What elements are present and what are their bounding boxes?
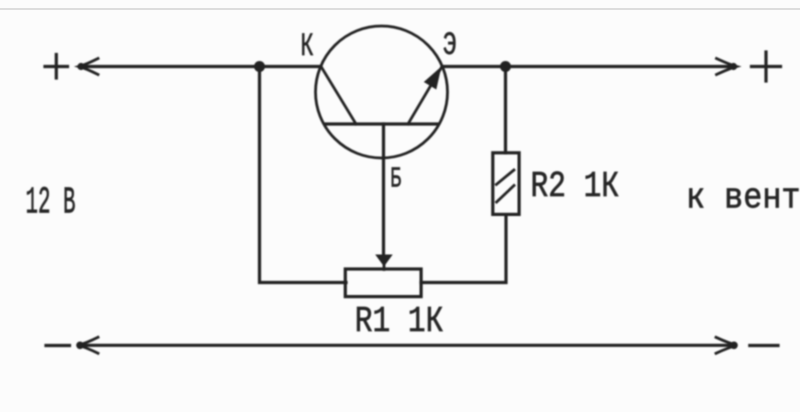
wire: R1 right lead up to R2 (421, 215, 506, 283)
wire: top rail right segment (442, 65, 735, 68)
bottom rail right arrow (716, 337, 738, 353)
transistor VT1 base bar (326, 122, 437, 125)
resistor R2 body (493, 153, 519, 215)
top rail right arrow (717, 59, 738, 75)
transistor VT1 body circle (316, 26, 448, 158)
plus symbol right (752, 52, 781, 81)
svg-text:К: К (301, 28, 314, 65)
svg-text:R2 1К: R2 1К (531, 166, 620, 207)
transistor VT1 emitter diagonal (408, 67, 442, 125)
svg-text:Б: Б (390, 163, 401, 196)
plus symbol left (+ terminal of 12V rail) (45, 55, 68, 79)
svg-text:Э: Э (443, 27, 457, 64)
top rail left arrow (77, 59, 98, 75)
minus symbol right (750, 344, 778, 347)
potentiometer wiper arrowhead (375, 255, 393, 270)
node: junction collector branch (254, 61, 265, 72)
wire: bottom rail (80, 344, 735, 347)
svg-text:R1 1К: R1 1К (355, 301, 444, 342)
svg-text:12 В: 12 В (26, 182, 76, 225)
wire: R2 top lead (504, 67, 507, 153)
wire: left branch down to R1 (260, 67, 347, 283)
bottom rail left arrow (76, 337, 98, 353)
potentiometer R1 body (345, 269, 421, 297)
transistor VT1 collector diagonal (321, 67, 356, 125)
wire: base lead down (382, 124, 385, 256)
node: junction emitter / R2 (500, 61, 511, 72)
wire: top rail left segment (80, 65, 321, 68)
minus symbol left (46, 344, 70, 347)
transistor VT1 emitter arrowhead (425, 68, 441, 89)
svg-text:к вент: к вент (686, 178, 800, 219)
